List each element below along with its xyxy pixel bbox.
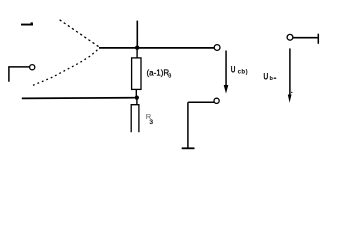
lower output lead wire <box>188 101 214 103</box>
terminal circle (far upper right) <box>287 34 293 40</box>
svg-text:U: U <box>263 72 268 82</box>
op-amp A1 upper edge (dashed) <box>60 20 99 47</box>
voltage arrow Ucb head <box>224 85 229 94</box>
speck near arrowhead <box>291 92 292 93</box>
wire: junction to resistor (a-1)R3 <box>136 48 138 58</box>
svg-text:3: 3 <box>168 74 171 80</box>
terminal end bar <box>317 34 319 44</box>
op-amp A1 lower edge (dashed) <box>33 49 99 86</box>
ground bar <box>182 147 195 149</box>
svg-text:U: U <box>231 65 236 75</box>
resistor R3 body (bottom cropped) <box>131 105 139 133</box>
voltage arrow Ucb shaft <box>225 51 227 87</box>
wire: resistor (a-1)R3 to lower junction <box>135 89 137 96</box>
wire: lower junction to resistor R3 <box>136 98 138 105</box>
output terminal circle (upper right) <box>214 45 220 51</box>
lower output terminal circle <box>214 98 219 103</box>
node: junction on output wire <box>135 46 139 50</box>
voltage arrow Ub- head <box>288 95 292 103</box>
wire: long horizontal to lower junction <box>22 97 135 100</box>
wire: down to ground <box>187 102 189 148</box>
svg-text:(a-1)R: (a-1)R <box>147 69 170 78</box>
node: lower junction <box>135 95 139 99</box>
wire: far right terminal lead <box>293 37 318 39</box>
wire: vertical feed from top <box>136 21 138 48</box>
voltage arrow Ub- shaft (far right) <box>289 48 291 95</box>
resistor (a-1)R3 body <box>132 58 141 90</box>
input terminal circle <box>30 65 35 70</box>
minus sign (inverting input label) <box>21 24 33 26</box>
wire: op-amp output to output terminal <box>99 47 215 49</box>
svg-text:cb): cb) <box>238 69 249 75</box>
input terminal stub (left) <box>9 67 30 82</box>
svg-text:3: 3 <box>149 119 153 126</box>
